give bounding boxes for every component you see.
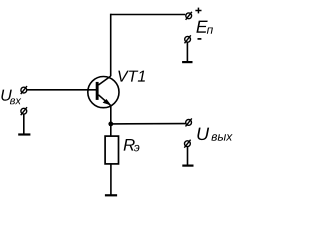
wire supply minus drop <box>186 42 188 62</box>
wire resistor to ground <box>110 164 112 195</box>
label Rэ <box>124 139 135 151</box>
wire output <box>111 123 186 125</box>
resistor Rэ <box>105 136 118 164</box>
transistor VT1 emitter lead <box>98 95 110 106</box>
label Uвых <box>197 128 209 141</box>
transistor VT1 collector lead <box>98 76 110 85</box>
wire base input <box>27 89 97 91</box>
ground resistor <box>105 194 117 196</box>
wire emitter vertical to node A <box>110 106 112 136</box>
label minus <box>198 38 202 40</box>
label VT1 <box>118 71 145 82</box>
label Eп <box>196 21 207 33</box>
transistor VT1 emitter arrow <box>103 99 110 104</box>
terminal +Eп <box>186 12 192 20</box>
ground output <box>182 165 193 167</box>
wire top power rail <box>111 14 186 16</box>
terminal Uвых <box>186 118 192 126</box>
terminal -Eп <box>185 35 191 43</box>
terminal Uвх <box>21 86 27 94</box>
terminal input common <box>21 107 27 115</box>
label plus <box>195 8 201 14</box>
wire output common drop <box>187 147 189 166</box>
wire input common drop <box>23 114 25 135</box>
transistor VT1 base bar <box>96 82 99 100</box>
transistor VT1 body <box>88 77 119 108</box>
wire collector vertical <box>110 14 112 76</box>
label Uвх <box>1 90 11 101</box>
ground input <box>18 133 30 135</box>
ground supply <box>182 61 192 63</box>
terminal output common <box>184 140 190 148</box>
node A junction dot <box>108 122 113 127</box>
